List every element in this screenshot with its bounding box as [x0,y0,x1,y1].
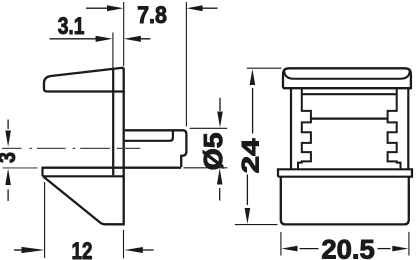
front view: right leg inner serrated edge [388,88,401,169]
side view: top flange (wedge) [44,68,125,92]
dim 3.1 right arrow [141,38,150,40]
front view: left leg outer edge [290,88,292,169]
front view: top cap inner line [284,72,409,79]
dim 24 bottom arrow [246,175,248,206]
svg-text:3.1: 3.1 [58,13,85,40]
dim 12 extension line left [44,182,46,258]
svg-text:24: 24 [237,138,264,173]
dim 12 right arrow [143,249,154,251]
side view: bottom bar top edge (continuous with pin bottom) [43,167,182,169]
dim 20.5 left arrow [300,248,319,250]
dim 20.5 extension line left [280,232,282,256]
front view: right leg outer edge [407,88,409,169]
centerline [2,147,140,149]
side view: bottom bar left end [41,167,43,177]
dim diameter-5 bottom arrow [219,188,221,201]
front view: base box [281,177,409,225]
front view: top cap [283,68,411,88]
dim 20.5 extension line right [408,232,410,256]
dim 24 extension line top [247,67,282,69]
dim diameter-5 extension line top [190,127,228,129]
front view: lower crossbar [311,117,388,119]
dim 3 top arrow [7,120,9,130]
dim 7.8 right arrow [201,7,218,9]
svg-text:7.8: 7.8 [137,2,167,29]
dim 7.8 extension line right (pin tip) [185,2,187,127]
dim 3.1 left arrow [50,38,97,40]
svg-text:12: 12 [72,238,93,260]
svg-text:Ø5: Ø5 [200,133,228,171]
dim 20.5 right arrow [378,248,391,250]
dim 12 extension line right [123,230,125,258]
side view: bottom gusset triangle [43,177,125,225]
front view: left leg inner serrated edge [298,88,311,169]
dim 24 top arrow [252,88,254,134]
side view: plate right face [123,68,125,225]
side view: bottom bar bottom edge [43,175,124,177]
dim 3 bottom arrow [7,189,9,201]
dim diameter-5 top arrow [219,98,221,111]
dim 12 left arrow [14,249,23,251]
svg-text:20.5: 20.5 [321,234,374,260]
front view: upper crossbar [302,93,397,95]
dim 7.8 extension line left (plate right face extended) [123,2,125,66]
svg-text:3: 3 [0,152,21,163]
side view: plate left face [112,70,114,175]
dim diameter-5 extension line bottom [184,167,228,169]
dim 24 extension line bottom [235,224,278,226]
dim 3.1 extension line (plate left face extended) [112,33,114,70]
front view: base plate [278,169,412,176]
side view: pin outer outline [125,130,187,167]
dim 7.8 left arrow [86,7,107,9]
dim 3 extension line bottom [3,167,38,169]
side view: pin inner step line [125,131,173,141]
